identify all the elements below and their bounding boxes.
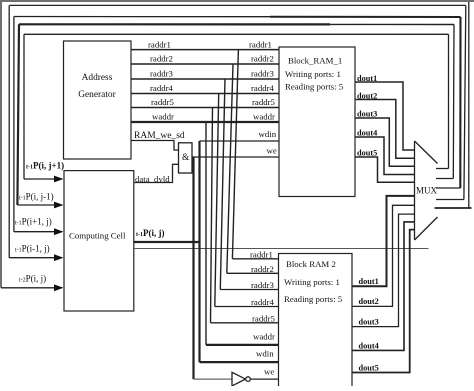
svg-text:dout2: dout2 — [359, 297, 379, 306]
Computing Cell box — [64, 171, 134, 311]
MUX symbol — [415, 141, 438, 240]
Block_RAM_1 box — [279, 47, 355, 197]
arrowhead input 3 — [54, 228, 64, 235]
bundle vertical raddr4 — [215, 94, 219, 307]
svg-text:raddr2: raddr2 — [150, 54, 173, 64]
svg-text:Writing ports: 1: Writing ports: 1 — [285, 69, 341, 79]
svg-text:Reading ports: 5: Reading ports: 5 — [284, 294, 343, 304]
svg-text:Address: Address — [82, 73, 113, 83]
feedback wire W5 right vertical — [468, 1, 470, 208]
svg-text:dout1: dout1 — [357, 74, 377, 83]
svg-text:raddr3: raddr3 — [251, 280, 275, 290]
svg-text:dout5: dout5 — [359, 363, 379, 372]
wire dout4 (RAM1 to MUX) — [355, 137, 415, 175]
label input 1 t-1P(i,j+1) — [15, 161, 165, 284]
feedback wire W3 top — [14, 16, 270, 18]
bundle vertical we (bold) — [192, 157, 194, 379]
wire data_dvld (cell to AND gate) — [134, 164, 179, 182]
svg-text:Block RAM 2: Block RAM 2 — [286, 259, 336, 269]
svg-text:Reading ports: 5: Reading ports: 5 — [285, 82, 344, 92]
svg-text:dout3: dout3 — [359, 317, 379, 326]
svg-text:waddr: waddr — [253, 112, 275, 122]
wire we (inverter to RAM2) — [250, 378, 278, 380]
MUX output stub 1 — [436, 168, 449, 170]
svg-text:raddr1: raddr1 — [148, 40, 171, 50]
wire dout5 (RAM1 to MUX) — [355, 157, 415, 182]
bundle vertical wdin (bold) — [198, 141, 200, 362]
wire cell output t-1P(i,j) (bold) — [134, 241, 200, 243]
wire raddr5 (RAM2) — [211, 322, 279, 324]
svg-text:dout1: dout1 — [359, 277, 379, 286]
feedback wire W4 left vertical — [8, 5, 10, 257]
wire dout3 (RAM1 to MUX) — [355, 118, 415, 166]
bundle vertical raddr1 — [232, 50, 238, 259]
svg-text:MUX: MUX — [416, 186, 438, 196]
wire raddr1 (RAM2) — [232, 258, 278, 260]
wire dout3 (RAM2 to MUX) — [352, 214, 415, 327]
Block RAM 2 box — [279, 254, 353, 390]
svg-text:raddr2: raddr2 — [251, 264, 274, 274]
svg-text:raddr4: raddr4 — [150, 83, 174, 93]
feedback wire W2 right vertical (bold) — [452, 25, 455, 179]
feedback wire W4 right vertical — [464, 5, 466, 199]
AND gate U1 box — [179, 143, 193, 173]
wire dout1 (RAM2 to MUX, bold) — [352, 196, 415, 286]
svg-text:RAM_we_sd: RAM_we_sd — [134, 131, 185, 141]
arrow into cell input 4 — [9, 257, 56, 259]
svg-text:dout5: dout5 — [357, 148, 377, 157]
wire raddr4 (AG to RAM1) — [131, 93, 279, 95]
svg-text:Computing Cell: Computing Cell — [69, 231, 126, 241]
wire RAM_we_sd (AG to AND gate) — [131, 141, 179, 151]
feedback wire W2 top (bold) — [19, 23, 330, 25]
feedback wire W2 left vertical (bold) — [17, 24, 19, 205]
feedback wire W1 top — [24, 33, 449, 35]
svg-text:raddr5: raddr5 — [151, 97, 175, 107]
wire dout1 (RAM1 to MUX) — [355, 82, 415, 150]
wire raddr5 (AG to RAM1) — [131, 107, 279, 109]
bundle vertical raddr3 — [220, 79, 225, 290]
MUX output stub 3 — [436, 187, 461, 189]
inverter bubble — [246, 377, 251, 382]
svg-text:raddr5: raddr5 — [252, 97, 276, 107]
bundle vertical waddr — [205, 122, 207, 345]
svg-text:dout2: dout2 — [357, 91, 377, 100]
wire wdin (RAM2, bold) — [200, 361, 279, 363]
MUX output stub 2 — [436, 178, 453, 180]
wire waddr (RAM2, bold) — [206, 344, 279, 346]
wire select line (long thin) — [134, 248, 429, 250]
wire raddr3 (AG to RAM1) — [131, 78, 279, 80]
svg-text:we: we — [267, 146, 277, 156]
svg-text:raddr3: raddr3 — [150, 69, 174, 79]
svg-text:wdin: wdin — [256, 349, 274, 359]
bundle vertical raddr2 — [227, 64, 233, 273]
feedback wire W3 right vertical — [459, 17, 461, 188]
MUX output stub 4 — [436, 199, 464, 201]
svg-text:Generator: Generator — [78, 90, 116, 100]
arrow into cell input 1 — [24, 178, 56, 180]
svg-text:dout4: dout4 — [359, 341, 379, 350]
wire dout5 (RAM2 to MUX, bold) — [352, 230, 415, 373]
feedback wire W1 left vertical — [23, 34, 25, 179]
wire raddr4 (RAM2) — [215, 306, 279, 308]
svg-text:data_dvld: data_dvld — [135, 174, 170, 184]
svg-text:wdin: wdin — [259, 129, 277, 139]
wire we (AND gate to RAM1) — [192, 156, 279, 158]
svg-text:raddr2: raddr2 — [251, 54, 274, 64]
arrowhead input 2 — [54, 202, 64, 209]
feedback wire W5 left vertical (grey border-like) — [0, 1, 2, 288]
arrowhead input 1 — [54, 176, 64, 183]
svg-text:raddr4: raddr4 — [251, 297, 275, 307]
svg-text:raddr1: raddr1 — [249, 40, 272, 50]
wire raddr2 (RAM2) — [227, 272, 279, 274]
arrow into cell input 5 — [1, 287, 56, 289]
svg-text:waddr: waddr — [152, 112, 174, 122]
svg-text:Writing ports: 1: Writing ports: 1 — [284, 277, 340, 287]
feedback wire W5 top (grey border-like) — [0, 0, 474, 2]
wire waddr (AG to RAM1, bold) — [131, 121, 279, 123]
wire raddr2 (AG to RAM1) — [131, 63, 279, 65]
svg-text:raddr1: raddr1 — [250, 250, 273, 260]
svg-text:raddr3: raddr3 — [251, 69, 275, 79]
svg-text:raddr4: raddr4 — [251, 83, 275, 93]
svg-text:waddr: waddr — [253, 332, 275, 342]
wire dout2 (RAM1 to MUX) — [355, 100, 415, 159]
wire raddr1 (AG to RAM1) — [131, 49, 279, 51]
arrow into cell input 2 — [17, 204, 56, 206]
feedback wire W1 right vertical — [448, 34, 450, 168]
wire dout4 (RAM2 to MUX) — [352, 222, 415, 351]
MUX output stub 5 (long bold) — [435, 207, 472, 209]
arrowhead input 4 — [54, 254, 64, 261]
wire wdin (RAM1 row) — [200, 140, 280, 142]
arrowhead input 5 — [54, 284, 64, 291]
svg-text:dout4: dout4 — [357, 128, 377, 137]
inverter (NOT gate) triangle — [232, 372, 246, 386]
svg-text:we: we — [264, 367, 274, 377]
svg-text:Block_RAM_1: Block_RAM_1 — [288, 56, 342, 66]
feedback wire W3 left vertical — [13, 16, 15, 231]
svg-text:dout3: dout3 — [357, 109, 377, 118]
wire dout2 (RAM2 to MUX) — [352, 205, 415, 306]
svg-text:&: & — [182, 153, 190, 163]
label dout1 (RAM1) — [357, 74, 379, 372]
svg-text:raddr5: raddr5 — [252, 314, 276, 324]
bundle vertical raddr5 — [211, 108, 213, 323]
Address Generator box — [64, 41, 132, 159]
feedback wire W4 top — [9, 4, 465, 6]
arrow into cell input 3 — [14, 231, 56, 233]
wire we input to inverter — [194, 378, 233, 380]
wire raddr3 (RAM2) — [220, 289, 278, 291]
